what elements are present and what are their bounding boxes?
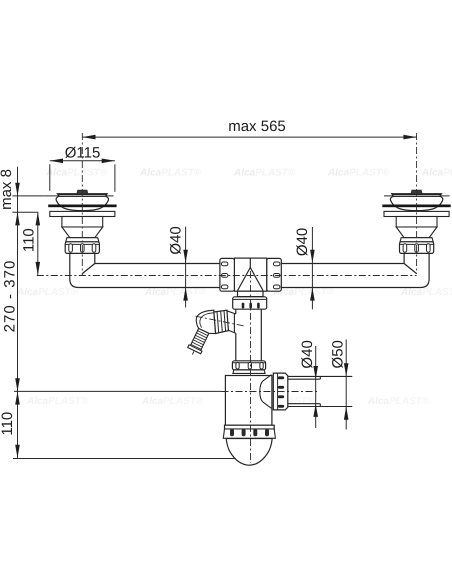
- svg-text:Ø40: Ø40: [168, 226, 185, 254]
- svg-text:AlcaPLAST®: AlcaPLAST®: [16, 287, 79, 298]
- svg-text:AlcaPLAST®: AlcaPLAST®: [233, 168, 296, 179]
- svg-text:AlcaPLAST®: AlcaPLAST®: [144, 287, 207, 298]
- svg-text:AlcaPLAST®: AlcaPLAST®: [45, 168, 108, 179]
- svg-text:max 565: max 565: [228, 118, 286, 135]
- svg-text:110: 110: [0, 412, 16, 436]
- svg-text:Ø40: Ø40: [299, 340, 316, 368]
- svg-text:AlcaPLAST®: AlcaPLAST®: [421, 168, 452, 179]
- svg-text:max 8: max 8: [0, 169, 15, 210]
- svg-text:AlcaPLAST®: AlcaPLAST®: [400, 287, 452, 298]
- svg-text:Ø50: Ø50: [329, 340, 346, 368]
- svg-text:AlcaPLAST®: AlcaPLAST®: [26, 396, 89, 407]
- svg-text:AlcaPLAST®: AlcaPLAST®: [367, 396, 430, 407]
- svg-text:AlcaPLAST®: AlcaPLAST®: [327, 168, 390, 179]
- svg-text:110: 110: [21, 228, 38, 252]
- svg-text:AlcaPLAST®: AlcaPLAST®: [139, 168, 202, 179]
- svg-text:AlcaPLAST®: AlcaPLAST®: [141, 396, 204, 407]
- svg-text:Ø115: Ø115: [65, 144, 101, 161]
- svg-text:270 - 370: 270 - 370: [2, 260, 19, 333]
- svg-text:Ø40: Ø40: [294, 228, 311, 256]
